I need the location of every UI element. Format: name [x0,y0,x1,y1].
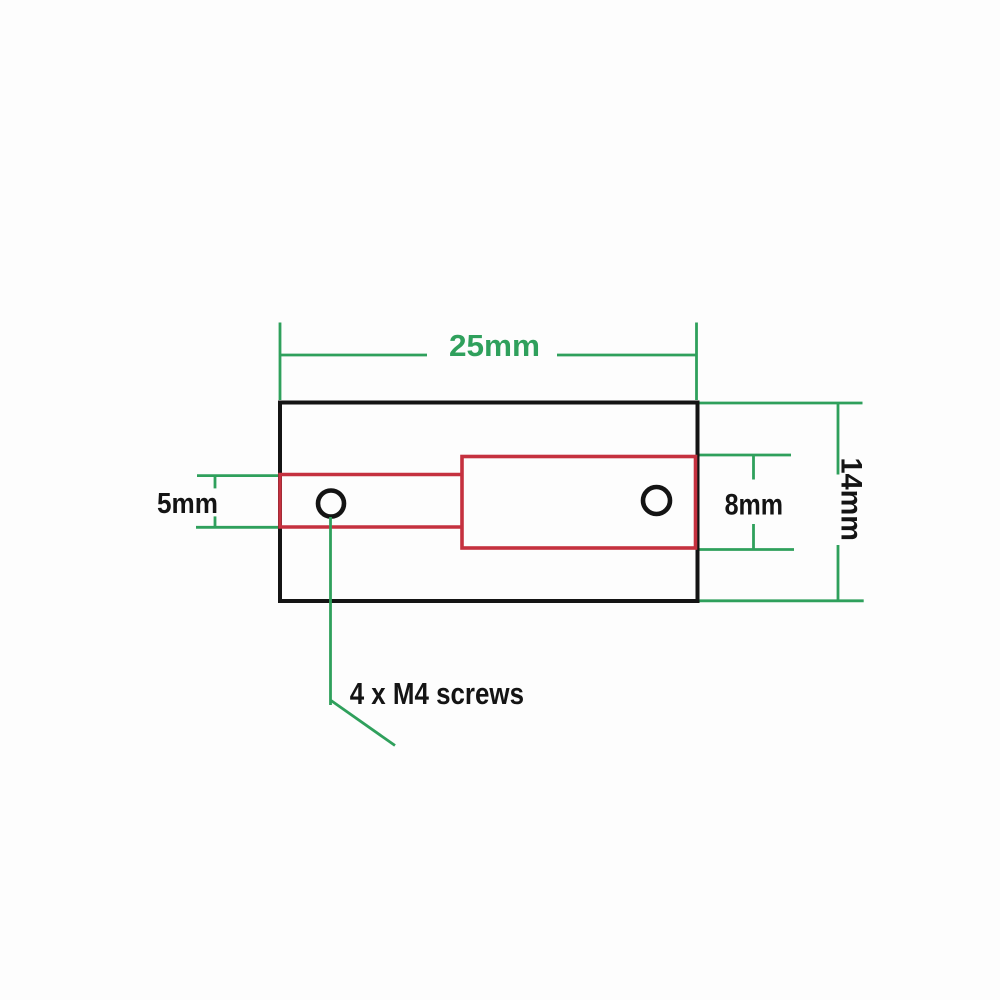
dim 5mm tick bottom [214,516,217,527]
dim 25mm extension right [695,323,698,401]
dim 8mm top line [700,454,792,457]
screw hole right [643,487,670,514]
svg-text:14mm: 14mm [835,458,868,542]
leader line vertical from left screw hole [329,517,332,705]
dim 14mm line lower segment [837,545,840,601]
svg-text:8mm: 8mm [725,489,784,522]
screw hole left [318,491,344,517]
dim 5mm bottom line [196,526,278,529]
bore 5mm red outline [280,475,462,528]
dim 8mm tick top [752,455,755,480]
dim 14mm extension bottom [700,599,864,602]
dim 14mm line upper segment [837,403,840,475]
dim 14mm extension top [700,402,863,405]
dim 8mm tick bottom [752,524,755,550]
svg-text:4 x M4 screws: 4 x M4 screws [350,677,524,711]
leader line diagonal [331,701,395,746]
dim 5mm top line [197,474,278,477]
svg-text:25mm: 25mm [449,328,540,363]
dim 5mm tick top [214,476,217,489]
dim 25mm line left segment [280,354,427,357]
dim 8mm bottom line [700,548,795,551]
dim 25mm line right segment [557,354,697,357]
bore 8mm red rectangle [462,457,696,549]
coupler body outline [280,403,698,602]
dim 25mm extension left [279,323,282,401]
svg-text:5mm: 5mm [157,488,218,520]
